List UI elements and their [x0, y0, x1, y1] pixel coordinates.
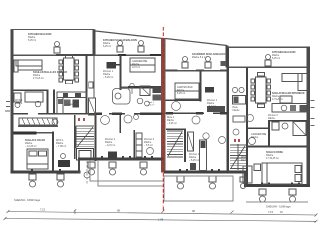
- wall bottom mid-right: [164, 171, 246, 174]
- bed right: [254, 163, 302, 184]
- WC1 fixtures left: [14, 92, 43, 108]
- red tick bottom: [162, 207, 164, 211]
- circle zimmer3: [147, 148, 154, 155]
- wall interior: bedroom top thick: [14, 132, 37, 135]
- svg-text:8,25 m²: 8,25 m²: [177, 92, 185, 95]
- svg-text:~ 3,25 m²: ~ 3,25 m²: [167, 122, 177, 125]
- kitchen appliances: [64, 100, 79, 108]
- shaft center right: [200, 133, 210, 171]
- wall nub y70: [166, 70, 178, 72]
- wall interior: bedroom right x52: [52, 132, 54, 172]
- stairs mid strip diagonal: [231, 146, 245, 168]
- wall nub y55 a: [56, 54, 95, 56]
- washer dryer stack dark: [153, 87, 162, 94]
- circle mid strip: [233, 129, 239, 135]
- svg-text:Fläche: Fläche: [233, 110, 241, 112]
- wall interior: bedroom top thin: [37, 132, 54, 133]
- kitchen right counter: [272, 104, 308, 113]
- TV right unit: [205, 87, 214, 93]
- wall interior: stair left wall x74: [74, 115, 76, 159]
- window symbol b7: [209, 176, 216, 189]
- wall bottom left: [11, 171, 81, 174]
- bathroom right fixtures: [272, 122, 306, 136]
- door gap y113.5 b: [100, 113, 109, 115]
- stairs left treads: [76, 126, 94, 148]
- wall nub right corridor c: [220, 112, 227, 114]
- wall interior far right: x247: [246, 68, 248, 185]
- wall nub y55 c: [150, 54, 161, 56]
- fixtures center corridor: [101, 115, 139, 125]
- door arcs right corridor: [192, 116, 226, 144]
- wall interior right unit: corridor y112.5: [166, 113, 228, 115]
- sofa left unit: [14, 60, 42, 72]
- wall balcony divider 1: [93, 30, 96, 57]
- elevator left nested rects: [77, 149, 94, 161]
- stair right top wall y129: [166, 129, 186, 131]
- tall cab x136: [136, 133, 142, 157]
- person symbol balcony mid b: [138, 41, 144, 53]
- window symbol b9: [259, 189, 266, 202]
- wall interior right unit: y100: [166, 100, 202, 102]
- wall nub y113.5 c: [140, 113, 162, 115]
- TV room1 left: [107, 62, 117, 69]
- person symbol balcony right b: [205, 57, 211, 69]
- window symbol b4: [109, 162, 116, 175]
- wall horizontal right y67: [228, 67, 307, 68]
- svg-text:KÜCHE: KÜCHE: [65, 103, 73, 106]
- svg-text:17,5+5 m²: 17,5+5 m²: [33, 77, 44, 80]
- kitchen counter left column: [57, 98, 63, 114]
- dining table left: [59, 55, 79, 84]
- svg-text:Fläche: Fläche: [268, 118, 276, 120]
- wall balcony divider 2: [226, 46, 229, 68]
- window symbol b6: [177, 176, 184, 189]
- wall top-right: [228, 47, 310, 49]
- wall interior: left WC top y90: [14, 90, 49, 92]
- wall nub y70 c: [220, 70, 228, 72]
- wall top sloped left: [96, 31, 164, 39]
- balcony fixture dark: [221, 61, 227, 66]
- svg-text:12,5 m²: 12,5 m²: [132, 66, 140, 69]
- door gap right corridor: [204, 112, 213, 114]
- dining table right: [251, 73, 271, 108]
- dimension line 1: [7, 209, 318, 216]
- bed left: [27, 149, 48, 169]
- wall interior: x134 lower: [134, 130, 136, 158]
- kitchen counter top row: [57, 92, 87, 98]
- red property line: [162, 27, 164, 206]
- svg-text:~ 12,5 m²: ~ 12,5 m²: [105, 144, 115, 147]
- bath fixtures right corridor dark: [207, 106, 225, 112]
- window symbol b1: [29, 174, 36, 187]
- wall interior far right: y128 small: [248, 128, 268, 129]
- person symbol balcony far right: [265, 55, 271, 67]
- window symbol b2: [57, 174, 64, 187]
- stairs right diagonal: [168, 132, 182, 156]
- dashed exit line below stair: [84, 161, 90, 184]
- svg-text:Zimmer 2: Zimmer 2: [268, 114, 278, 117]
- svg-text:~ 5,2 m²: ~ 5,2 m²: [207, 105, 216, 108]
- wall interior: left WC right x48: [47, 90, 49, 114]
- duct wall x94: [94, 55, 95, 98]
- shower left bath: [140, 86, 150, 96]
- wall nub y113.5 a: [95, 113, 102, 115]
- person symbol balcony right a: [182, 57, 188, 69]
- person figure bath: [130, 83, 134, 94]
- person symbol balcony mid a: [117, 41, 123, 53]
- svg-text:SHEUM4 - KDW4 lage: SHEUM4 - KDW4 lage: [14, 198, 41, 202]
- window symbol b5: [140, 162, 147, 175]
- wall interior far right: bath left x269: [268, 120, 270, 147]
- svg-text:~ 5,25 m²: ~ 5,25 m²: [189, 159, 199, 162]
- window symbol b10: [289, 189, 296, 202]
- wall top-left balcony rail: [11, 29, 95, 30]
- wall top sloped right: [166, 39, 228, 46]
- svg-text:~ 5,25 m²: ~ 5,25 m²: [103, 76, 113, 79]
- wall nub right corridor b: [196, 112, 203, 114]
- wardrobe right unit: [175, 83, 199, 99]
- wall nub y113.5 b: [112, 113, 122, 115]
- wall bottom mid-left: [78, 158, 164, 161]
- stair right side wall x184.5: [184, 129, 186, 163]
- svg-text:~ 7,08 m²: ~ 7,08 m²: [56, 145, 66, 148]
- sofa right: [280, 74, 307, 104]
- svg-text:Diele: Diele: [233, 107, 239, 109]
- door arc right unit: [172, 102, 181, 111]
- unit wall x227: [227, 48, 230, 172]
- terrace outline mid-right: [164, 176, 233, 201]
- wall interior: room divider x120: [120, 55, 122, 90]
- svg-text:Fläche: Fläche: [167, 120, 175, 122]
- svg-text:4,1 m²: 4,1 m²: [148, 104, 154, 107]
- svg-text:Fläche: Fläche: [15, 102, 23, 105]
- bath circles: [137, 98, 149, 106]
- svg-text:17,15,25 m²: 17,15,25 m²: [266, 157, 279, 160]
- wall nub right corridor a: [166, 112, 173, 114]
- door gap y113.5 a: [28, 113, 38, 115]
- fixture near shaft: [190, 163, 196, 170]
- svg-text:5,25 m²: 5,25 m²: [103, 45, 111, 48]
- svg-text:~ 12,25 m²: ~ 12,25 m²: [25, 145, 37, 148]
- terrace outline right: [246, 201, 308, 203]
- mid strip lower fixtures: [233, 115, 254, 123]
- wall interior: closet wall y126: [18, 126, 58, 127]
- svg-text:7.15: 7.15: [268, 210, 274, 214]
- svg-text:5,25 m²: 5,25 m²: [272, 57, 280, 60]
- dresser right: [243, 166, 252, 183]
- svg-text:Fläche: Fläche: [241, 159, 249, 162]
- window symbol b8: [240, 177, 246, 189]
- outer wall right: [307, 47, 311, 187]
- margin marks right: [311, 100, 315, 126]
- svg-text:Diele 1: Diele 1: [167, 117, 175, 119]
- wall interior: central spine x86 upper: [86, 55, 88, 114]
- stairs right treads: [167, 131, 183, 157]
- margin marks left: [5, 101, 10, 111]
- door frame right stair: [188, 132, 194, 151]
- wall interior: stair right wall x95: [95, 115, 97, 161]
- door gap y113.5 c: [125, 113, 134, 115]
- window symbol b3: [88, 162, 95, 175]
- red mark mid strip: [234, 139, 236, 142]
- closet room2: [130, 58, 155, 72]
- svg-text:7.15: 7.15: [40, 208, 46, 212]
- wall interior: corridor y113.5 full: [14, 113, 164, 115]
- bathtub left unit: [113, 89, 131, 105]
- stairs left diagonal: [77, 127, 93, 147]
- kitchenette mid strip rect: [233, 96, 246, 105]
- svg-text:~ 5,5 m²: ~ 5,5 m²: [144, 144, 153, 147]
- person symbol balcony left: [54, 42, 60, 54]
- svg-text:Fläche 5,2 m²: Fläche 5,2 m²: [192, 56, 207, 59]
- wall horizontal left unit y55: [14, 55, 162, 56]
- wall nub y70 b: [196, 70, 204, 72]
- wall interior far right: bath top y121: [268, 120, 307, 122]
- svg-text:5,25 m²: 5,25 m²: [28, 39, 36, 42]
- duct fixture: [89, 82, 93, 88]
- wall bottom right: [244, 184, 310, 187]
- dresser corridor dark: [108, 152, 117, 159]
- kitchenette mid strip circles: [232, 87, 244, 92]
- svg-text:Fläche: Fläche: [251, 136, 259, 139]
- dimension line 2: [4, 217, 318, 223]
- door frame left x88: [89, 98, 96, 115]
- svg-text:SHEUM4 - 5,8M lage: SHEUM4 - 5,8M lage: [266, 205, 291, 209]
- wall interior right unit: x200: [200, 72, 202, 102]
- outer wall left: [11, 29, 14, 173]
- wall interior: kitchen left x54: [53, 90, 55, 114]
- wall interior: bath top y87: [121, 87, 161, 89]
- WC2 fixtures: [52, 119, 70, 167]
- wall interior far right: y146: [248, 146, 307, 148]
- party wall (brown): [161, 38, 166, 173]
- wall interior: x120 lower: [120, 115, 122, 133]
- wall step left: [78, 158, 80, 173]
- red utility marks: [78, 118, 80, 121]
- wall nub y55 b: [118, 54, 126, 56]
- terrace outline mid-left: [90, 160, 163, 186]
- wardrobe hatch left: [19, 118, 57, 125]
- svg-text:1.98: 1.98: [158, 217, 164, 221]
- garderobe circle right: [249, 138, 256, 145]
- window wall ticks: [31, 156, 300, 184]
- wall nub bath top: [128, 86, 161, 88]
- svg-text:17,5+5 m²: 17,5+5 m²: [272, 98, 283, 101]
- wall horizontal right unit y70: [166, 70, 228, 71]
- wall step right: [244, 172, 246, 185]
- stairs mid strip treads: [230, 144, 246, 170]
